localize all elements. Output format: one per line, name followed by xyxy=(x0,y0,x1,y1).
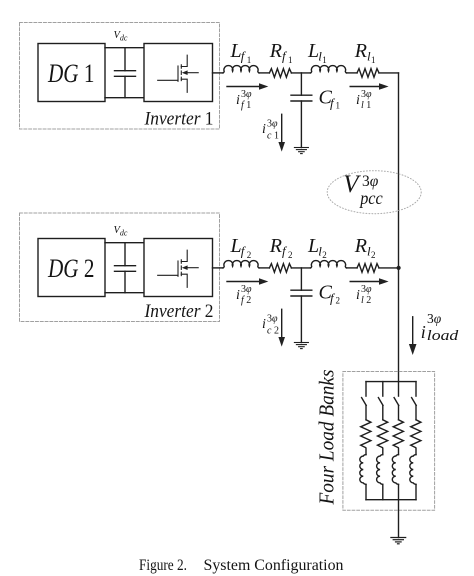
wire: load bottom to ground xyxy=(398,500,400,538)
load branch 2: bottom lead xyxy=(382,484,384,499)
load branch 1: wire to inductor xyxy=(365,448,367,454)
svg-text:f 1: f 1 xyxy=(241,100,251,111)
load branch 3: top lead xyxy=(398,382,400,397)
wire: Lf2 to Rf2 xyxy=(259,267,269,269)
svg-text:R: R xyxy=(354,40,367,62)
svg-text:L: L xyxy=(307,235,319,257)
wire: Rf1 to node 1 xyxy=(291,72,310,74)
wire: DG2 to inverter2 bottom rail xyxy=(105,292,144,294)
current arrow iload xyxy=(409,317,417,355)
svg-text:3φ: 3φ xyxy=(241,89,252,100)
load branch 3: wire to inductor xyxy=(398,448,400,454)
label ic2 3phi xyxy=(262,314,279,337)
inductor Ll2 xyxy=(311,261,347,268)
svg-text:2: 2 xyxy=(288,250,293,260)
wire: Rl1 to PCC bus corner xyxy=(379,72,399,74)
ground (Cf2) xyxy=(294,343,308,349)
svg-text:c 1: c 1 xyxy=(267,130,279,141)
wire: DG2 to inverter2 top rail xyxy=(105,242,144,244)
current arrow if2 xyxy=(227,278,268,285)
resistor load bank 2 xyxy=(377,420,387,448)
inverter 2 dashed enclosure xyxy=(20,213,220,322)
svg-text:Figure 2.: Figure 2. xyxy=(139,557,187,574)
svg-text:1: 1 xyxy=(288,55,293,65)
load branch 1: wire to resistor xyxy=(365,405,367,419)
load branch 4: bottom lead xyxy=(415,484,417,499)
inductor load bank 1 xyxy=(360,455,366,485)
svg-text:i: i xyxy=(236,288,240,303)
switch S3 xyxy=(394,398,399,406)
load branch 1: top lead xyxy=(365,382,367,397)
svg-text:3φ: 3φ xyxy=(361,89,372,100)
svg-text:i: i xyxy=(356,93,360,108)
svg-text:System Configuration: System Configuration xyxy=(204,557,344,574)
inductor load bank 3 xyxy=(392,455,398,485)
svg-text:3φ: 3φ xyxy=(267,119,278,130)
switch S4 xyxy=(412,398,417,406)
label il1 3phi xyxy=(356,89,372,111)
svg-text:Vdc: Vdc xyxy=(114,30,128,43)
inductor load bank 2 xyxy=(377,455,383,485)
inductor Lf1 xyxy=(223,66,259,73)
load branch 4: wire to resistor xyxy=(415,405,417,419)
ground (Cf1) xyxy=(294,148,308,154)
current arrow il2 xyxy=(350,278,388,285)
wire: inverter 2 output xyxy=(213,267,224,269)
svg-text:3φ: 3φ xyxy=(427,311,442,326)
svg-text:l 2: l 2 xyxy=(361,295,371,306)
load branch 2: wire to inductor xyxy=(382,448,384,454)
current arrow ic2 xyxy=(278,309,285,346)
svg-text:DG 2: DG 2 xyxy=(47,254,94,283)
node: filter node 1 (Cf1 tap) xyxy=(300,73,302,95)
wire: DG1 to inverter1 bottom rail xyxy=(105,97,144,99)
svg-text:i: i xyxy=(262,317,266,332)
svg-text:Inverter 1: Inverter 1 xyxy=(144,109,214,130)
DG 1 box xyxy=(38,44,105,102)
load branch 2: wire to resistor xyxy=(382,405,384,419)
load branch 2: top lead xyxy=(382,382,384,397)
svg-text:L: L xyxy=(230,40,242,62)
capacitor Cf2 xyxy=(291,290,312,342)
current arrow ic1 xyxy=(278,114,285,151)
resistor Rl1 xyxy=(357,69,379,78)
label il2 3phi xyxy=(356,284,372,306)
svg-text:2: 2 xyxy=(322,250,327,260)
svg-text:i: i xyxy=(421,322,426,342)
resistor Rl2 xyxy=(357,264,379,273)
label iload 3phi xyxy=(421,311,459,344)
svg-text:2: 2 xyxy=(371,250,376,260)
resistor Rf1 xyxy=(269,69,291,78)
PCC dotted ellipse xyxy=(327,171,421,214)
wire: inverter 1 output xyxy=(213,72,224,74)
capacitor Vdc (row 1) xyxy=(115,48,136,98)
resistor load bank 4 xyxy=(411,420,421,448)
svg-text:l 1: l 1 xyxy=(361,100,371,111)
svg-text:i: i xyxy=(236,93,240,108)
resistor load bank 3 xyxy=(393,420,403,448)
load branch 4: wire to inductor xyxy=(415,448,417,454)
four load banks dashed enclosure xyxy=(343,372,435,511)
wire: PCC vertical bus xyxy=(398,73,400,382)
wire: Ll1 to Rl1 xyxy=(347,72,358,74)
svg-text:R: R xyxy=(354,235,367,257)
wire: Ll2 to Rl2 xyxy=(347,267,358,269)
wire: load top bus bar xyxy=(366,381,416,383)
wire: DG1 to inverter1 top rail xyxy=(105,47,144,49)
svg-text:3φ: 3φ xyxy=(361,284,372,295)
svg-text:i: i xyxy=(262,122,266,137)
ground (load) xyxy=(391,538,406,544)
load branch 4: top lead xyxy=(415,382,417,397)
svg-text:f 2: f 2 xyxy=(241,295,251,306)
svg-text:DG 1: DG 1 xyxy=(47,59,94,88)
load branch 1: bottom lead xyxy=(365,484,367,499)
capacitor Cf1 xyxy=(291,95,312,147)
svg-text:i: i xyxy=(356,288,360,303)
inverter 2 box xyxy=(144,239,213,297)
label Vpcc 3phi xyxy=(343,171,383,208)
svg-text:V: V xyxy=(343,171,361,198)
svg-text:R: R xyxy=(269,40,282,62)
svg-text:c 2: c 2 xyxy=(267,325,279,336)
wire: Rl2 to PCC junction xyxy=(379,267,399,269)
svg-text:2: 2 xyxy=(247,250,252,260)
inductor Ll1 xyxy=(311,66,347,73)
svg-text:3φ: 3φ xyxy=(267,314,278,325)
node: PCC junction with row 2 xyxy=(397,266,401,270)
svg-text:pcc: pcc xyxy=(358,188,382,208)
svg-text:3φ: 3φ xyxy=(241,284,252,295)
svg-text:L: L xyxy=(230,235,242,257)
transistor Q1 (MOSFET symbol inside inverter 1) xyxy=(158,55,199,92)
svg-text:Vdc: Vdc xyxy=(114,225,128,238)
svg-text:load: load xyxy=(427,328,459,344)
svg-text:L: L xyxy=(307,40,319,62)
label if1 3phi xyxy=(236,89,252,111)
svg-text:R: R xyxy=(269,235,282,257)
svg-text:Four Load Banks: Four Load Banks xyxy=(315,370,339,506)
load branch 3: bottom lead xyxy=(398,484,400,499)
svg-text:1: 1 xyxy=(336,101,341,111)
resistor Rf2 xyxy=(269,264,291,273)
resistor load bank 1 xyxy=(361,420,371,448)
node: filter node 2 (Cf2 tap) xyxy=(300,268,302,290)
svg-text:1: 1 xyxy=(247,55,252,65)
DG 2 box xyxy=(38,239,105,297)
wire: Lf1 to Rf1 xyxy=(259,72,269,74)
switch S2 xyxy=(378,398,383,406)
current arrow il1 xyxy=(350,83,388,90)
switch S1 xyxy=(362,398,367,406)
svg-text:Inverter 2: Inverter 2 xyxy=(144,301,214,322)
transistor Q2 (MOSFET symbol inside inverter 2) xyxy=(158,250,199,287)
load branch 3: wire to resistor xyxy=(398,405,400,419)
svg-text:2: 2 xyxy=(336,296,341,306)
label if2 3phi xyxy=(236,284,252,306)
label ic1 3phi xyxy=(262,119,279,142)
capacitor Vdc (row 2) xyxy=(115,243,136,293)
inductor Lf2 xyxy=(223,261,259,268)
inverter 1 box xyxy=(144,44,213,102)
svg-text:1: 1 xyxy=(322,55,327,65)
svg-text:1: 1 xyxy=(371,55,376,65)
current arrow if1 xyxy=(227,83,268,90)
wire: load bottom bus bar xyxy=(366,499,416,501)
inductor load bank 4 xyxy=(410,455,416,485)
wire: Rf2 to node 2 xyxy=(291,267,310,269)
inverter 1 dashed enclosure xyxy=(20,23,220,130)
